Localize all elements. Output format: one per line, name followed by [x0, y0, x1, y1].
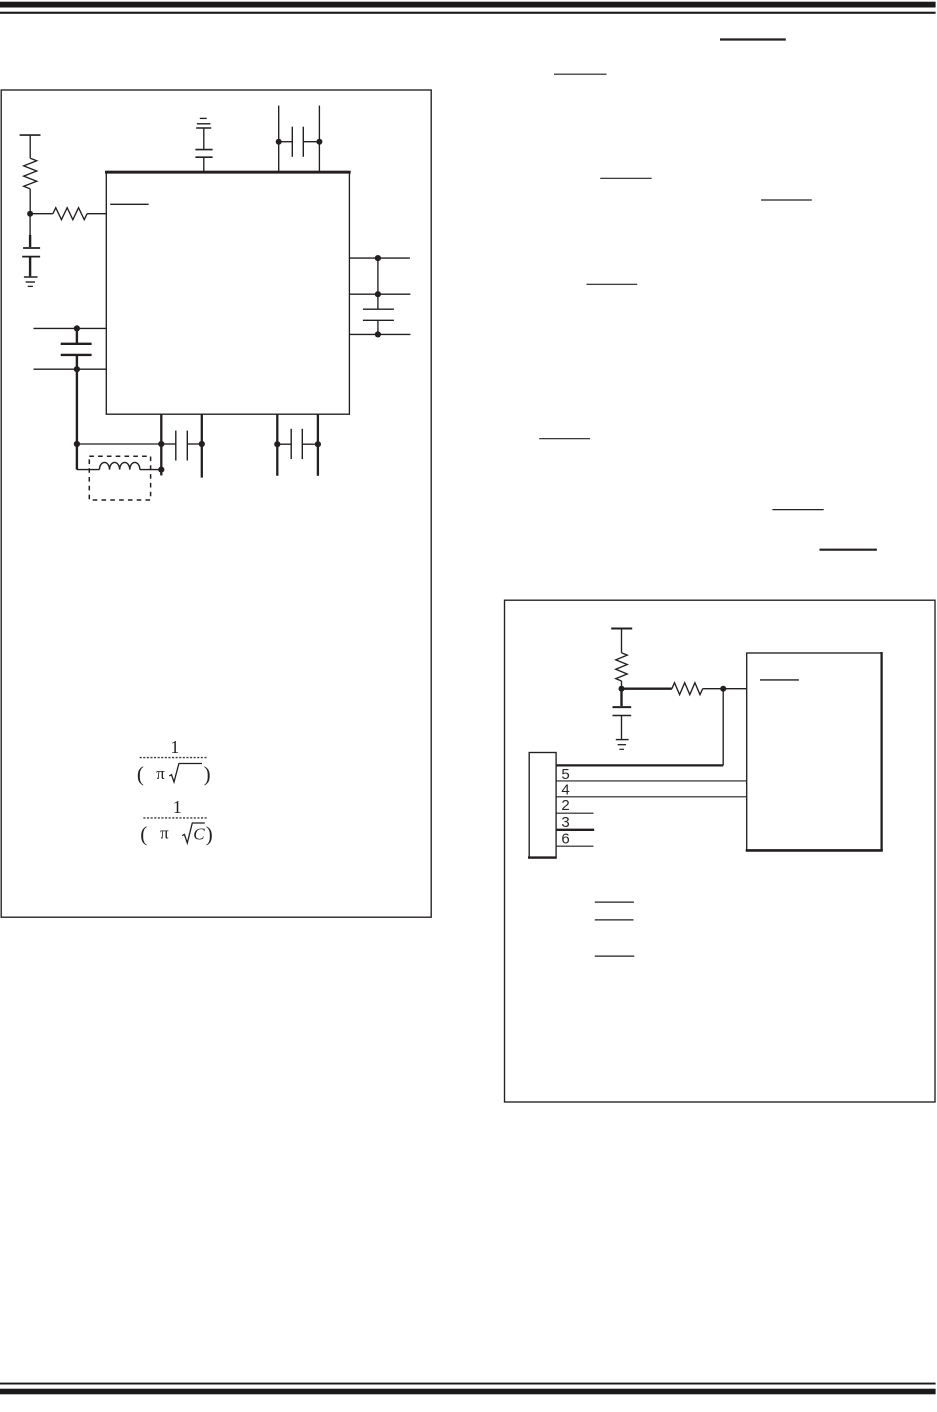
svg-text:): ) [204, 762, 211, 786]
formula 1 radical [169, 764, 202, 783]
figure 1 frame [1, 90, 431, 917]
pin 4 wire [556, 796, 747, 798]
node junction dot [315, 441, 321, 447]
wire [621, 681, 623, 689]
pin 3 wire [556, 829, 594, 831]
pin 2 wire [556, 812, 593, 814]
IC U1 pin label underline [110, 203, 148, 205]
wire bottom pin A [160, 414, 162, 475]
node junction dot [276, 139, 282, 145]
wire [722, 689, 724, 766]
svg-text:(: ( [137, 762, 144, 786]
wire [203, 128, 205, 149]
capacitor C8 [620, 689, 622, 706]
bottom footer rule thick [0, 1389, 936, 1395]
svg-text:1: 1 [170, 737, 179, 757]
capacitor C1 [29, 235, 31, 247]
top header rule thin [0, 12, 936, 14]
text underline [595, 919, 634, 921]
wire bottom pin C [276, 414, 278, 476]
wire left pin upper [34, 327, 107, 329]
formula 1 fraction bar [140, 757, 207, 759]
ground [616, 739, 629, 741]
ground (top, inverted) [200, 117, 207, 119]
wire [377, 320, 379, 334]
pin 5 wire [556, 780, 747, 782]
svg-text:C: C [193, 824, 205, 843]
text underline [820, 549, 877, 551]
wire OSC pin left [278, 106, 280, 172]
text underline [539, 438, 590, 440]
wire bottom pin B [201, 414, 203, 477]
wire right pin 2 [349, 293, 410, 295]
wire OSC pin right [318, 106, 320, 172]
pin 6 wire [556, 845, 593, 847]
wire [30, 213, 53, 215]
wire [29, 214, 31, 235]
ground [24, 276, 38, 278]
IC U1 [106, 172, 349, 415]
text underline [595, 901, 634, 903]
wire net to connector [556, 764, 723, 766]
top header rule thick [0, 2, 936, 8]
resistor R4 [672, 683, 703, 695]
wire right pin 3 [349, 333, 410, 335]
text underline [554, 73, 607, 75]
formula 2 radical [182, 823, 205, 843]
VDD rail symbol [20, 134, 41, 136]
node junction dot [316, 139, 322, 145]
capacitor C6 [161, 443, 176, 445]
capacitor C5 [76, 328, 78, 343]
svg-text:(: ( [140, 822, 147, 846]
text underline [600, 177, 652, 179]
wire [703, 688, 747, 690]
node junction dot [74, 325, 80, 331]
node junction dot [158, 441, 164, 447]
wire [87, 213, 106, 215]
wire left pin lower [34, 368, 107, 370]
wire [29, 189, 31, 214]
svg-text:π: π [160, 824, 169, 843]
svg-text:2: 2 [561, 797, 569, 814]
wire [77, 469, 100, 471]
svg-text:1: 1 [173, 797, 182, 817]
IC U2 pin label underline [760, 679, 799, 681]
inductor L1 [99, 462, 139, 469]
wire bottom pin D [317, 414, 319, 476]
resistor R1 [24, 158, 37, 189]
node junction dot [375, 255, 381, 261]
svg-text:3: 3 [561, 814, 569, 831]
wire [377, 258, 379, 309]
wire [621, 629, 623, 653]
node junction dot [375, 331, 381, 337]
wire [76, 444, 78, 470]
svg-text:): ) [206, 822, 213, 846]
text underline [587, 283, 638, 285]
connector J1 [529, 753, 556, 858]
wire [76, 369, 78, 444]
node junction dot [274, 441, 280, 447]
capacitor C3 [279, 141, 293, 143]
resistor R3 [616, 653, 627, 681]
text underline [772, 509, 823, 511]
node junction dot [74, 366, 80, 372]
wire [622, 688, 672, 690]
svg-text:π: π [156, 764, 165, 783]
capacitor C4 [363, 308, 394, 310]
bottom footer rule thin [0, 1383, 936, 1385]
node junction dot [199, 441, 205, 447]
IC U2 [747, 653, 882, 850]
VDD rail symbol [611, 628, 632, 630]
node A junction dot [27, 211, 33, 217]
wire [77, 443, 161, 445]
text underline [720, 38, 786, 40]
node junction dot [375, 291, 381, 297]
inductor optional dashed box [89, 456, 150, 500]
formula 2 fraction bar [143, 817, 207, 819]
node junction dot [720, 686, 726, 692]
wire [140, 469, 161, 471]
resistor R2 [53, 208, 87, 220]
text underline [761, 199, 812, 201]
svg-text:4: 4 [561, 782, 569, 799]
svg-text:6: 6 [561, 831, 569, 848]
capacitor C7 [277, 443, 291, 445]
wire [29, 135, 31, 158]
figure 2 frame [505, 600, 936, 1102]
node junction dot [619, 686, 625, 692]
wire [621, 716, 623, 740]
text underline [595, 955, 635, 957]
node junction dot [74, 441, 80, 447]
node junction dot [158, 467, 164, 473]
wire [203, 157, 205, 171]
capacitor C2 [195, 149, 212, 151]
wire right pin 1 [349, 257, 410, 259]
